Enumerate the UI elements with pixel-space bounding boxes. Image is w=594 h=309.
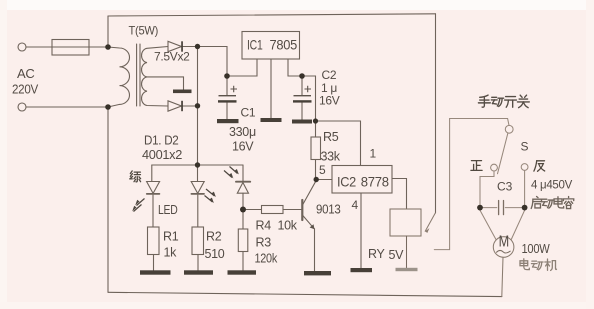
ground relay [396, 268, 418, 271]
ground pin4 [351, 268, 373, 272]
wire +5V node [302, 76, 316, 121]
wire REV contact to C3 right node [524, 170, 526, 205]
resistor R3 leads [242, 210, 244, 271]
capacitor C3 right wire [505, 207, 524, 209]
resistor R5 leads [315, 121, 317, 180]
ground IC1 [261, 118, 282, 122]
wire right drop to relay contact [435, 14, 437, 213]
ground center tap [173, 90, 192, 94]
svg-text:C2: C2 [322, 68, 337, 82]
svg-text:5: 5 [319, 163, 326, 177]
resistor R4 body [262, 206, 284, 214]
switch contact REV [521, 164, 528, 171]
svg-text:9013: 9013 [316, 203, 341, 217]
transformer T primary winding [108, 47, 130, 107]
transistor Q1 base bar [301, 200, 303, 220]
wire C3 left node to motor [480, 210, 496, 239]
label electric motor (Chinese) [520, 259, 557, 271]
resistor R1 body [148, 227, 160, 255]
wire D2 cathode to bus [182, 105, 198, 107]
junction LED rail [195, 162, 200, 167]
wire C3 right node to motor [511, 210, 524, 239]
svg-text:1k: 1k [164, 246, 178, 260]
transistor emitter lead to ground [314, 229, 316, 271]
wire bus to C1 node [198, 47, 228, 77]
wire +5V to pin1 riser [316, 121, 361, 165]
wire top rail [108, 14, 436, 16]
label manual switch (Chinese) [478, 95, 529, 108]
IC1 output pin wire [288, 59, 302, 76]
svg-text:510: 510 [205, 247, 225, 261]
svg-text:1: 1 [370, 147, 377, 161]
photodiode incoming arrows [224, 171, 232, 178]
wire D1 cathode to bus [182, 46, 198, 48]
switch S wiper [498, 133, 508, 174]
junction photodiode node [240, 207, 246, 213]
LED2 cathode bar [191, 193, 204, 195]
svg-text:120k: 120k [255, 252, 278, 266]
wire photodiode node to R4 [243, 209, 262, 211]
relay coil box RY [390, 209, 421, 236]
svg-text:220V: 220V [12, 82, 39, 97]
svg-text:D1. D2: D1. D2 [144, 134, 179, 148]
svg-text:4: 4 [352, 198, 359, 212]
ground R3 [228, 270, 257, 274]
junction +5V node [313, 118, 318, 123]
wire NO contact riser [434, 119, 449, 250]
label reverse (Chinese) [534, 161, 545, 172]
IC1 7805 regulator box [242, 32, 300, 60]
ground emitter [304, 271, 331, 275]
junction C2 node [299, 73, 305, 79]
svg-text:4001x2: 4001x2 [142, 148, 182, 162]
svg-text:R4: R4 [256, 219, 272, 233]
resistor R3 body [238, 229, 248, 252]
relay contact arm [425, 213, 435, 231]
svg-text:7.5Vx2: 7.5Vx2 [154, 50, 190, 64]
capacitor C2 plates [294, 95, 312, 96]
switch S common terminal [505, 125, 513, 133]
svg-text:R2: R2 [206, 230, 222, 244]
resistor R2 body [192, 227, 204, 255]
ground R2 [184, 270, 213, 274]
svg-text:T(5W): T(5W) [129, 24, 159, 38]
LED1 leads [152, 165, 153, 227]
junction C1 node [224, 73, 230, 79]
resistor R2 bottom lead [197, 255, 199, 271]
label green (Chinese) [130, 171, 141, 182]
IC2 8778 box [332, 166, 392, 194]
svg-text:100W: 100W [522, 242, 550, 256]
svg-text:10k: 10k [278, 219, 298, 233]
svg-text:C1: C1 [241, 106, 256, 120]
svg-text:LED: LED [158, 203, 178, 217]
junction primary top [105, 44, 111, 50]
wire secondary center tap [147, 77, 184, 90]
svg-text:M: M [499, 233, 509, 250]
wire rectified bus [197, 47, 199, 166]
transistor Q1 collector [303, 181, 316, 205]
svg-text:AC: AC [17, 66, 34, 81]
svg-text:R5: R5 [323, 130, 339, 144]
svg-text:16V: 16V [319, 94, 340, 108]
svg-text:IC1: IC1 [247, 37, 263, 53]
svg-text:IC2: IC2 [337, 174, 356, 190]
LED2 emission arrows [206, 189, 215, 196]
ground C2 [292, 120, 312, 124]
LED2 triangle [191, 182, 204, 194]
transistor Q1 emitter [303, 216, 315, 229]
photodiode cathode bar [236, 181, 250, 183]
motor bottom lead [502, 257, 503, 296]
wire R5 to IC2 pin5 [316, 179, 333, 181]
relay coil bottom lead [406, 236, 408, 268]
LED1 emission arrows [132, 167, 239, 212]
wire left edge down [107, 107, 109, 292]
svg-text:4 μ450V: 4 μ450V [531, 178, 572, 192]
svg-text:R1: R1 [163, 230, 179, 244]
svg-text:330μ: 330μ [229, 125, 256, 139]
ground C1 [217, 119, 239, 123]
label start capacitor (Chinese) [531, 197, 574, 209]
capacitor C1 plates [219, 95, 237, 96]
svg-text:16V: 16V [232, 140, 254, 154]
LED1 triangle [147, 182, 160, 194]
svg-text:RY: RY [368, 247, 386, 261]
wire left riser to top rail [107, 16, 109, 47]
junction primary bottom [105, 104, 111, 110]
capacitor C1 leads [226, 76, 228, 119]
photodiode top lead [242, 165, 244, 181]
ground R1 [140, 270, 171, 274]
fuse F [52, 40, 89, 56]
C2 plus sign [305, 86, 312, 92]
LED2 leads [197, 165, 199, 227]
transistor emitter arrowhead [310, 224, 315, 229]
IC2 output pin wire to relay coil [392, 179, 407, 210]
svg-text:33k: 33k [321, 150, 341, 164]
wire to manual switch common [450, 119, 509, 126]
IC2 pin4 wire to ground [360, 193, 362, 268]
IC1 ground pin wire [270, 59, 272, 118]
wire C1 node to IC1 input pin [227, 59, 257, 76]
label forward (Chinese) [471, 161, 482, 171]
switch contact FWD [491, 164, 498, 171]
wire R4 to base [283, 209, 302, 211]
diode D2 [168, 101, 182, 111]
junction D2 out [195, 103, 200, 108]
LED1 cathode bar [147, 193, 160, 195]
capacitor C2 leads [301, 76, 303, 120]
resistor R1 bottom lead [153, 255, 155, 271]
svg-text:5V: 5V [389, 248, 405, 262]
capacitor C3 left wire [480, 207, 497, 209]
transformer core [137, 44, 140, 106]
junction C3 right node [522, 205, 528, 211]
wire AC hot to fuse to primary [26, 46, 108, 48]
transformer T secondary windings [142, 47, 168, 107]
junction R5 pin5 [314, 177, 319, 182]
photodiode bottom lead [242, 193, 244, 209]
motor M circle [493, 237, 514, 258]
LED anode rail [152, 164, 243, 166]
junction D1 out [195, 44, 200, 49]
photodiode triangle [237, 183, 248, 194]
motor tilde [497, 250, 511, 253]
resistor R5 body [311, 137, 321, 160]
wire AC neutral to primary bottom [26, 106, 108, 108]
AC terminal bottom [18, 103, 26, 111]
wire FWD contact to C3 left node [480, 171, 494, 205]
C1 plus sign [231, 86, 238, 92]
svg-text:R3: R3 [256, 236, 272, 250]
AC terminal top [18, 43, 26, 51]
capacitor C3 plates [499, 201, 504, 215]
svg-text:S: S [521, 140, 529, 154]
svg-text:8778: 8778 [361, 174, 389, 190]
svg-text:7805: 7805 [270, 37, 298, 53]
junction C3 left node [477, 205, 483, 211]
wire bottom rail [108, 292, 502, 296]
diode D1 [168, 41, 182, 51]
relay arm arrowhead [425, 228, 429, 233]
svg-text:C3: C3 [497, 180, 513, 194]
